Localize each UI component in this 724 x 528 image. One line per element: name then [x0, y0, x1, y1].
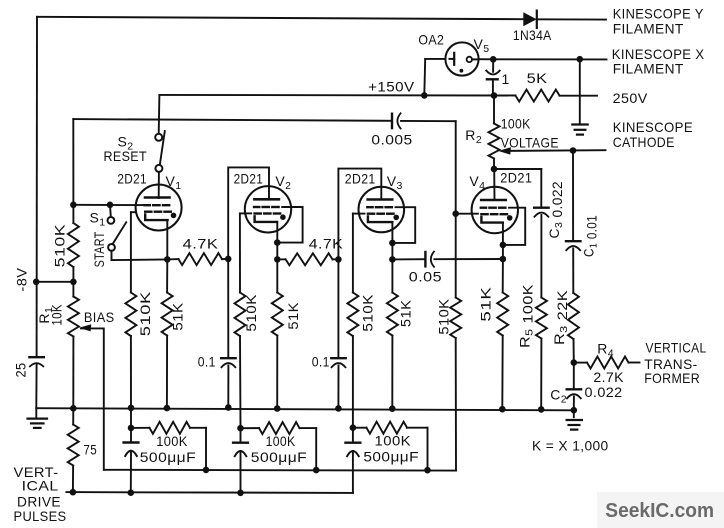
- svg-text:51K: 51K: [479, 287, 494, 322]
- svg-text:VERTICAL: VERTICAL: [646, 340, 707, 356]
- svg-text:1N34A: 1N34A: [513, 27, 552, 43]
- svg-text:510K: 510K: [244, 294, 259, 332]
- svg-text:+150V: +150V: [368, 79, 415, 95]
- svg-text:0.05: 0.05: [409, 268, 442, 284]
- svg-text:10K: 10K: [50, 304, 65, 326]
- svg-text:1: 1: [502, 71, 510, 87]
- svg-text:CATHODE: CATHODE: [613, 134, 675, 150]
- svg-text:510K: 510K: [437, 299, 452, 335]
- svg-text:510K: 510K: [138, 291, 153, 336]
- svg-text:SeekIC.com: SeekIC.com: [605, 500, 714, 522]
- svg-text:2D21: 2D21: [234, 170, 264, 186]
- svg-text:START: START: [92, 231, 107, 267]
- svg-text:4.7K: 4.7K: [183, 235, 219, 251]
- svg-text:RESET: RESET: [104, 148, 148, 164]
- svg-text:510K: 510K: [52, 224, 67, 268]
- svg-text:K = X 1,000: K = X 1,000: [532, 438, 609, 454]
- svg-text:OA2: OA2: [418, 31, 444, 47]
- svg-text:ICAL: ICAL: [22, 478, 59, 494]
- svg-text:500μμF: 500μμF: [251, 449, 307, 465]
- svg-text:5K: 5K: [527, 70, 548, 86]
- svg-text:51K: 51K: [286, 302, 301, 330]
- svg-text:0.022: 0.022: [585, 384, 623, 400]
- svg-text:75: 75: [83, 441, 97, 457]
- svg-text:FORMER: FORMER: [644, 370, 700, 386]
- svg-text:500μμF: 500μμF: [363, 448, 419, 464]
- svg-text:100K: 100K: [266, 433, 296, 449]
- svg-text:250V: 250V: [613, 90, 648, 106]
- svg-text:2D21: 2D21: [500, 169, 532, 185]
- svg-text:510K: 510K: [361, 294, 376, 332]
- svg-text:100K: 100K: [375, 433, 412, 449]
- svg-text:100K: 100K: [501, 115, 531, 131]
- svg-text:100K: 100K: [156, 433, 188, 449]
- svg-text:2.7K: 2.7K: [593, 369, 624, 385]
- svg-text:PULSES: PULSES: [14, 508, 67, 524]
- svg-text:51K: 51K: [170, 303, 185, 331]
- svg-text:BIAS: BIAS: [84, 309, 115, 325]
- svg-text:0.1: 0.1: [312, 354, 330, 370]
- svg-text:25: 25: [14, 363, 29, 378]
- svg-text:0.1: 0.1: [198, 354, 216, 370]
- svg-text:51K: 51K: [399, 300, 414, 328]
- svg-text:FILAMENT: FILAMENT: [613, 60, 684, 76]
- svg-text:2D21: 2D21: [345, 170, 376, 186]
- svg-text:FILAMENT: FILAMENT: [613, 20, 684, 36]
- svg-text:-8V: -8V: [14, 268, 29, 292]
- svg-text:2D21: 2D21: [117, 170, 146, 186]
- svg-text:KINESCOPE: KINESCOPE: [613, 119, 693, 135]
- svg-text:KINESCOPE Y: KINESCOPE Y: [613, 5, 704, 21]
- svg-text:500μμF: 500μμF: [140, 449, 196, 465]
- svg-text:0.005: 0.005: [371, 131, 412, 147]
